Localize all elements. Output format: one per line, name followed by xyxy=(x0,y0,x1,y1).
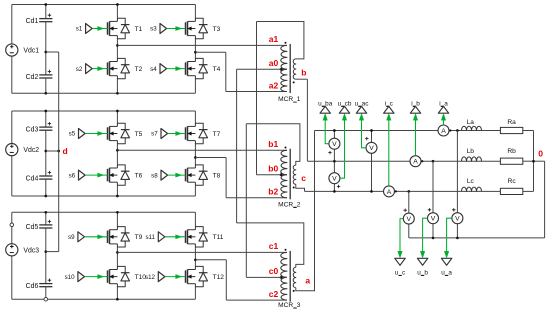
wire u_ac meter branch xyxy=(371,131,373,192)
resistor Ra xyxy=(500,119,522,133)
svg-text:T6: T6 xyxy=(135,173,143,180)
wire bottom rail xyxy=(409,237,545,239)
svg-text:b0: b0 xyxy=(268,164,278,174)
svg-text:Cd4: Cd4 xyxy=(26,175,39,182)
label MCR_2 secondary phase xyxy=(301,173,306,183)
svg-text:MCR_1: MCR_1 xyxy=(278,96,301,103)
node open circle bottom rail bridge 3 xyxy=(44,297,48,301)
svg-text:V: V xyxy=(431,216,436,223)
svg-text:Vdc2: Vdc2 xyxy=(23,147,39,154)
wire MCR_1 center tap xyxy=(280,68,287,71)
svg-text:b: b xyxy=(301,68,306,78)
wire MCR_3 secondary top loop xyxy=(237,223,304,267)
signal wire u_cb xyxy=(340,119,345,179)
svg-text:s5: s5 xyxy=(69,131,76,138)
svg-text:Cd6: Cd6 xyxy=(26,283,39,290)
junction dots bottom rail xyxy=(432,237,459,240)
node open circle left rail bridge 3 xyxy=(10,223,14,227)
wire left rail bridge 3 xyxy=(11,212,13,299)
signal wire i_b xyxy=(415,119,417,156)
voltmeter u_a xyxy=(452,208,463,224)
wire b1 (leg1 mid bridge2 to MCR_2 top) xyxy=(117,149,287,151)
transformer MCR_1 core xyxy=(289,44,291,93)
svg-text:s7: s7 xyxy=(151,131,158,138)
svg-text:Rb: Rb xyxy=(507,148,516,155)
svg-text:V: V xyxy=(332,176,337,183)
probe u_ac xyxy=(355,100,370,120)
wire c2 (leg2 mid bridge3 to MCR_3 bottom) xyxy=(195,260,287,300)
svg-text:T12: T12 xyxy=(213,274,225,281)
transistor T8 xyxy=(186,165,221,185)
wire d-bus vertical xyxy=(58,52,60,252)
label MCR_3 secondary phase xyxy=(305,275,310,285)
wire phase b (MCR_1 secondary to line2) xyxy=(296,79,308,161)
wire MCR_2 secondary top loop xyxy=(246,124,300,165)
probe u_a xyxy=(441,251,452,276)
gate signal s2 xyxy=(76,64,108,74)
probe i_c xyxy=(384,100,394,120)
wire leg2 bridge 2 xyxy=(194,111,196,196)
polarity marks MCR_2 xyxy=(285,147,295,189)
wire line1 phase a xyxy=(315,130,501,132)
svg-text:s3: s3 xyxy=(150,26,157,33)
svg-text:T11: T11 xyxy=(213,234,224,241)
signal wire u_ac xyxy=(362,119,367,148)
wire resistor commons xyxy=(523,131,545,192)
capacitor Cd6 xyxy=(26,252,53,300)
svg-text:c1: c1 xyxy=(269,241,279,251)
probe i_a xyxy=(438,100,448,120)
wire MCR_3 center tap xyxy=(280,276,287,279)
svg-text:T2: T2 xyxy=(135,66,143,73)
svg-text:0: 0 xyxy=(538,149,543,159)
wire phase a (MCR_3 secondary to line1) xyxy=(296,131,315,291)
svg-text:Rc: Rc xyxy=(508,178,517,185)
transformer MCR_3 core xyxy=(289,251,291,302)
gate signal s8 xyxy=(151,170,185,180)
voltmeter u_ac xyxy=(365,137,377,153)
voltmeter u_b xyxy=(428,208,439,224)
svg-text:b2: b2 xyxy=(268,187,278,197)
inductor Lb xyxy=(462,148,482,161)
gate signal s9 xyxy=(68,232,107,242)
svg-text:Cd1: Cd1 xyxy=(26,18,39,25)
svg-text:Ra: Ra xyxy=(507,119,516,126)
svg-text:a2: a2 xyxy=(269,80,279,90)
wire leg2 bridge 1 xyxy=(194,5,196,94)
capacitor Cd5 xyxy=(26,212,53,251)
svg-text:MCR_3: MCR_3 xyxy=(278,302,301,309)
wire leg1 bridge 1 xyxy=(116,5,118,94)
inductor La xyxy=(462,119,482,130)
svg-text:c: c xyxy=(301,173,306,183)
wire left rail bridge 2 xyxy=(11,111,13,196)
transistor T3 xyxy=(186,18,221,38)
label MCR_1 name xyxy=(278,96,301,103)
voltage source Vdc1 xyxy=(6,44,40,56)
junction dots bridge 1 xyxy=(44,3,196,94)
node 0 label xyxy=(538,149,543,159)
svg-text:T5: T5 xyxy=(135,131,143,138)
svg-text:T8: T8 xyxy=(213,173,221,180)
wire u_b meter branch xyxy=(432,161,434,238)
junction dots bridge 2 xyxy=(44,110,196,198)
junction dots measurement lines xyxy=(333,129,459,193)
svg-text:a0: a0 xyxy=(269,58,279,68)
probe u_ba xyxy=(318,100,333,120)
wire phase c (MCR_2 secondary to line3) xyxy=(296,184,305,191)
polarity marks MCR_3 xyxy=(285,249,295,292)
svg-text:a1: a1 xyxy=(269,34,279,44)
svg-text:s1: s1 xyxy=(76,26,83,33)
wire line2 phase b xyxy=(307,160,500,162)
wire MCR_2 center tap xyxy=(280,173,287,176)
svg-text:a: a xyxy=(305,275,310,285)
wire left rail bridge 1 xyxy=(11,5,13,94)
transformer MCR_2 secondary winding xyxy=(293,165,296,184)
probe u_cb xyxy=(338,100,352,120)
svg-text:T7: T7 xyxy=(213,131,221,138)
transistor T12 xyxy=(186,266,225,286)
signal wire u_ba xyxy=(325,119,329,144)
svg-text:s8: s8 xyxy=(151,172,158,179)
voltmeter u_c xyxy=(403,209,414,225)
gate signal s1 xyxy=(76,24,108,34)
svg-text:d: d xyxy=(63,146,68,156)
wire top rail bridge 2 xyxy=(12,110,196,112)
transformer MCR_1 secondary winding xyxy=(293,59,296,79)
signal wire u_c xyxy=(400,219,403,252)
svg-text:Lb: Lb xyxy=(467,148,475,155)
transistor T6 xyxy=(108,165,143,185)
svg-text:s11: s11 xyxy=(145,234,155,241)
transistor T1 xyxy=(108,18,143,38)
wire bottom rail bridge 1 xyxy=(12,92,196,94)
wire u_ba meter branch xyxy=(333,131,335,162)
svg-text:A: A xyxy=(387,189,392,196)
transformer MCR_3 primary winding xyxy=(281,252,287,300)
svg-text:A: A xyxy=(413,159,418,166)
wire leg1 bridge 3 xyxy=(116,212,118,299)
ammeter i_b xyxy=(410,156,423,167)
svg-text:c2: c2 xyxy=(269,289,279,299)
svg-text:MCR_2: MCR_2 xyxy=(278,201,301,208)
svg-text:b1: b1 xyxy=(268,139,278,149)
svg-text:Vdc3: Vdc3 xyxy=(23,247,39,254)
signal wire u_a xyxy=(447,218,452,251)
labels MCR_1 taps xyxy=(269,34,279,90)
probe u_c xyxy=(395,251,406,276)
resistor Rc xyxy=(500,178,522,195)
svg-text:La: La xyxy=(467,119,475,126)
capacitor Cd1 xyxy=(26,5,53,53)
transistor T7 xyxy=(186,123,221,143)
polarity marks MCR_1 xyxy=(285,42,295,84)
svg-text:s6: s6 xyxy=(69,172,76,179)
gate signal s6 xyxy=(69,170,108,180)
label MCR_3 name xyxy=(278,302,301,309)
voltmeter u_ba xyxy=(328,138,340,154)
ammeter i_c xyxy=(384,186,397,197)
gate signal s5 xyxy=(69,129,108,139)
transformer MCR_3 secondary winding xyxy=(293,267,296,287)
node d label xyxy=(63,146,68,156)
svg-text:Vdc1: Vdc1 xyxy=(23,48,39,55)
wire MCR_1 box to b0 tap xyxy=(257,22,282,175)
gate signal s7 xyxy=(151,129,185,139)
svg-text:s2: s2 xyxy=(76,66,83,73)
wire node 0 to bottom rail xyxy=(544,161,546,238)
wire top rail bridge 1 xyxy=(12,4,196,6)
wire top rail bridge 3 xyxy=(12,211,196,213)
gate signal s4 xyxy=(150,64,185,74)
svg-text:T3: T3 xyxy=(213,26,221,33)
transformer MCR_2 primary winding xyxy=(281,150,287,198)
transistor T10 xyxy=(108,266,147,286)
svg-text:A: A xyxy=(441,128,446,135)
wire cap midpoint 1 to d-bus xyxy=(46,51,59,53)
gate signal s11 xyxy=(145,232,185,242)
svg-text:T1: T1 xyxy=(135,26,143,33)
svg-text:s9: s9 xyxy=(68,234,75,241)
wire cap midpoint 2 to d-bus xyxy=(46,150,60,153)
wire MCR_3 box to a0 tap xyxy=(237,69,281,223)
transistor T2 xyxy=(108,58,143,78)
wire leg2 bridge 3 xyxy=(194,212,196,299)
svg-text:V: V xyxy=(369,145,374,152)
transistor T5 xyxy=(108,123,143,143)
wire bottom rail bridge 2 xyxy=(12,195,196,197)
wire leg1 bridge 2 xyxy=(116,111,118,196)
svg-text:c0: c0 xyxy=(269,266,279,276)
ammeter i_a xyxy=(438,125,451,136)
wire a2 (leg2 mid bridge1 to MCR_1 bottom) xyxy=(195,52,287,91)
voltmeter u_cb xyxy=(329,173,340,188)
svg-text:V: V xyxy=(407,216,412,223)
wire MCR_2 box to c0 tap xyxy=(246,124,281,278)
resistor Rb xyxy=(500,148,522,165)
svg-text:s10: s10 xyxy=(65,274,76,281)
svg-text:V: V xyxy=(332,141,337,148)
capacitor Cd2 xyxy=(26,52,53,93)
svg-text:s12: s12 xyxy=(145,274,156,281)
wire b2 (leg2 mid bridge2 to MCR_2 bottom) xyxy=(195,158,287,198)
wire MCR_1 secondary top loop xyxy=(257,22,304,59)
transistor T4 xyxy=(186,58,221,78)
svg-text:Cd3: Cd3 xyxy=(26,126,39,133)
svg-text:T4: T4 xyxy=(213,66,221,73)
svg-text:s4: s4 xyxy=(150,66,157,73)
wire bottom rail bridge 3 xyxy=(12,298,196,300)
voltage source Vdc2 xyxy=(6,144,40,156)
label MCR_1 secondary phase xyxy=(301,68,306,78)
wire a1 (leg1 mid bridge1 to MCR_1 top) xyxy=(117,44,287,46)
probe u_b xyxy=(417,251,428,276)
gate signal s12 xyxy=(145,272,185,282)
signal wire i_a xyxy=(443,119,445,126)
gate signal s10 xyxy=(65,272,108,282)
wire u_c meter branch xyxy=(408,191,410,238)
signal wire i_c xyxy=(388,119,390,186)
capacitor Cd3 xyxy=(26,111,53,151)
svg-text:Cd5: Cd5 xyxy=(26,224,39,231)
svg-text:Cd2: Cd2 xyxy=(26,74,39,81)
inductor Lc xyxy=(462,178,482,191)
labels MCR_2 taps xyxy=(268,139,278,197)
wire u_cb meter branch xyxy=(333,161,335,191)
capacitor Cd4 xyxy=(26,151,53,196)
transistor T11 xyxy=(186,227,224,247)
svg-text:Lc: Lc xyxy=(467,178,475,185)
signal wire u_b xyxy=(423,218,428,251)
transformer MCR_1 primary winding xyxy=(281,45,287,91)
labels MCR_3 taps xyxy=(269,241,279,299)
probe i_b xyxy=(410,100,420,120)
junction dots bridge 3 xyxy=(44,211,196,301)
gate signal s3 xyxy=(150,24,185,34)
transistor T9 xyxy=(108,227,143,247)
svg-text:V: V xyxy=(455,216,460,223)
wire cap midpoint 3 to d-bus xyxy=(46,251,59,253)
label MCR_2 name xyxy=(278,201,301,208)
wire line3 phase c xyxy=(305,190,501,192)
svg-text:T9: T9 xyxy=(135,234,143,241)
transformer MCR_2 core xyxy=(289,149,291,200)
wire u_a meter branch xyxy=(456,131,458,238)
voltage source Vdc3 xyxy=(6,244,40,256)
wire c1 (leg1 mid bridge3 to MCR_3 top) xyxy=(117,251,287,253)
